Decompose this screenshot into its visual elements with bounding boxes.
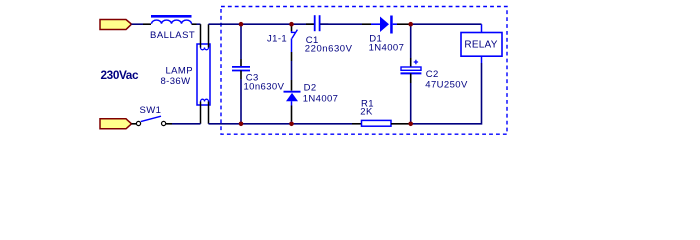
pin switch left — [132, 123, 137, 125]
lamp top filament — [201, 48, 209, 50]
capacitor C3 — [232, 67, 250, 71]
capacitor C2 (electrolytic, polarised) — [401, 60, 422, 74]
junction dot bottom C3 — [239, 122, 244, 127]
dashed module boundary box — [221, 7, 507, 135]
pin R1 left — [352, 123, 361, 125]
wire bottom rail: lamp pin4 to R1 — [209, 123, 353, 125]
pin C3 bottom — [240, 71, 242, 80]
svg-text:10n630V: 10n630V — [244, 82, 285, 93]
pin R1 right — [391, 123, 409, 125]
svg-text:2K: 2K — [360, 107, 373, 118]
svg-text:8-36W: 8-36W — [161, 76, 191, 87]
lamp bottom filament — [201, 99, 209, 101]
relay box RELAY — [461, 33, 502, 57]
svg-text:RELAY: RELAY — [464, 39, 497, 50]
switch SW1 — [136, 116, 165, 125]
svg-text:47U250V: 47U250V — [425, 79, 468, 90]
lamp pin 3 (bottom-left) — [200, 102, 202, 124]
wire J1 to D2 — [291, 61, 293, 80]
node C2 branch from top rail — [410, 24, 412, 58]
junction dot top J1 — [289, 22, 294, 27]
junction dot top C3 — [239, 22, 244, 27]
wire connector X1 to ballast — [132, 23, 144, 25]
jumper J1-1 — [292, 24, 298, 52]
junction dot bottom C2 — [408, 122, 413, 127]
pin ballast left — [143, 23, 151, 25]
pin C3 top — [240, 59, 242, 67]
pin D2 top — [291, 80, 293, 91]
svg-text:1N4007: 1N4007 — [303, 93, 339, 104]
junction dot bottom D2 — [289, 122, 294, 127]
pin relay top — [481, 24, 483, 32]
connector X2 (bottom left mains terminal) — [100, 119, 132, 129]
svg-text:D2: D2 — [304, 83, 317, 94]
svg-text:C2: C2 — [426, 69, 439, 80]
svg-text:SW1: SW1 — [140, 105, 162, 116]
lamp pin 4 (bottom-right) — [208, 102, 210, 124]
junction dot top C2 — [408, 22, 413, 27]
connector X1 (top left mains terminal) — [100, 20, 132, 30]
svg-text:220n630V: 220n630V — [305, 44, 353, 55]
svg-text:1N4007: 1N4007 — [369, 43, 405, 54]
pin C2 top — [410, 58, 412, 67]
wire C2 to bottom rail — [410, 83, 412, 124]
node C3 top branch wire — [240, 24, 242, 59]
wire C1 to D1 — [320, 23, 362, 25]
svg-text:J1-1: J1-1 — [267, 34, 287, 45]
pin C2 bottom — [410, 73, 412, 83]
svg-text:LAMP: LAMP — [166, 66, 193, 77]
pin D2 bottom — [291, 106, 293, 122]
pin relay bottom — [481, 56, 483, 63]
pin ballast right — [192, 23, 197, 25]
lamp pin 1 (top-left) — [200, 24, 202, 47]
svg-text:230Vac: 230Vac — [101, 68, 139, 82]
pin J1 bottom — [291, 52, 293, 61]
lamp pin 2 (top-right) — [208, 24, 210, 47]
inductor BALLAST — [151, 15, 192, 24]
resistor R1 — [362, 120, 392, 126]
capacitor C1 — [315, 15, 320, 31]
wire ballast to lamp pin1 — [197, 23, 201, 25]
pin C1 right — [320, 23, 328, 25]
wire top rail: lamp pin2 to C1 — [209, 23, 315, 25]
lamp LAMP 8-36W body — [197, 44, 210, 105]
pin D1 left — [362, 23, 371, 25]
wire relay bottom to bottom rail — [412, 63, 482, 124]
diode D2 — [284, 92, 301, 106]
pin D1 right — [397, 23, 409, 25]
wire D1 junction to relay — [409, 23, 482, 25]
pin switch right — [166, 123, 172, 125]
wire D2 to rail — [291, 121, 293, 124]
svg-text:BALLAST: BALLAST — [150, 30, 195, 41]
wire C3 bottom to rail — [240, 79, 242, 124]
wire switch to lamp pin3 — [172, 123, 201, 125]
diode D1 — [371, 16, 397, 34]
pin C1 left — [306, 23, 314, 25]
